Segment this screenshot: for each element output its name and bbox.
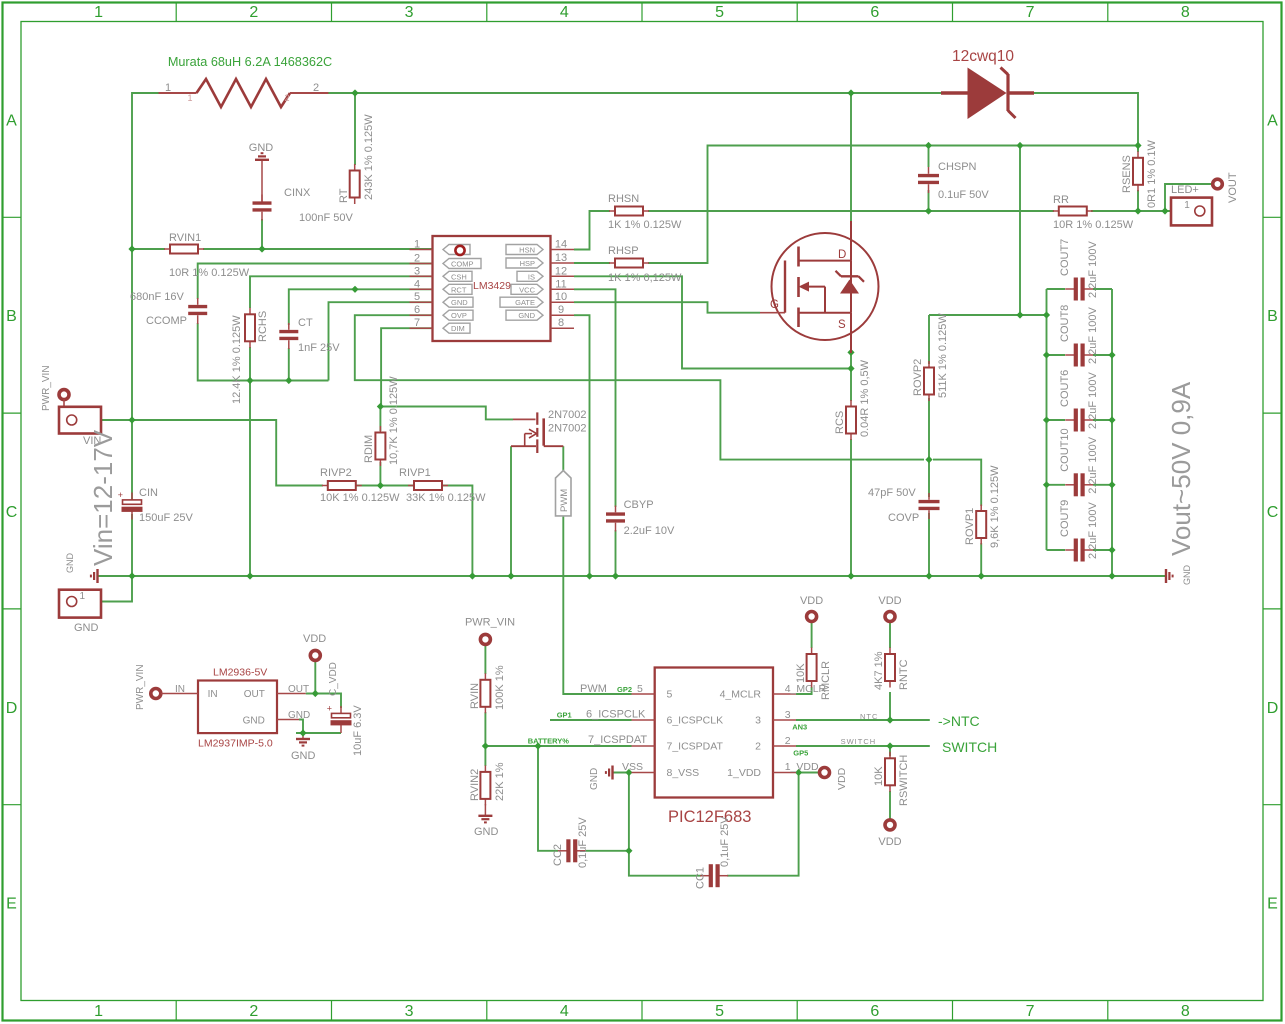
svg-text:2: 2 [313, 82, 319, 94]
capacitor CC1 [700, 864, 728, 887]
wire RR right to LED+ [1091, 210, 1193, 212]
node drain top [847, 89, 854, 96]
svg-text:6_ICSPCLK: 6_ICSPCLK [586, 709, 646, 721]
svg-text:10,7K 1% 0.125W: 10,7K 1% 0.125W [388, 376, 400, 465]
svg-text:COVP: COVP [888, 512, 919, 524]
svg-text:0.04R 1% 0,5W: 0.04R 1% 0,5W [859, 359, 871, 437]
svg-text:->NTC: ->NTC [938, 713, 980, 729]
capacitor CBYP labels [624, 499, 675, 537]
svg-text:CC2: CC2 [552, 844, 564, 866]
resistor ROVP1 labels [964, 465, 1001, 548]
connector VIN labels [41, 365, 101, 447]
svg-text:COUT6: COUT6 [1059, 370, 1071, 407]
svg-text:CHSPN: CHSPN [938, 161, 977, 173]
resistor RHSP labels [608, 245, 682, 284]
svg-text:1: 1 [94, 1003, 103, 1020]
svg-text:OVP: OVP [451, 311, 467, 320]
svg-text:5: 5 [637, 683, 643, 695]
svg-text:SWITCH: SWITCH [942, 739, 997, 755]
svg-text:1nF 25V: 1nF 25V [298, 342, 340, 354]
svg-text:+: + [327, 704, 332, 714]
node VOUT drop [1016, 142, 1023, 149]
svg-text:GND: GND [249, 142, 274, 154]
wire COUT9 row right [1093, 549, 1112, 551]
svg-text:7_ICSPDAT: 7_ICSPDAT [588, 734, 647, 746]
transistor Q1 power MOSFET [760, 221, 879, 353]
svg-text:2.2uF 100V: 2.2uF 100V [1087, 306, 1099, 364]
connector LED+ labels [1171, 184, 1199, 211]
node CBYP gnd [612, 572, 619, 579]
svg-text:6_ICSPCLK: 6_ICSPCLK [667, 715, 724, 727]
capacitor CHSPN labels [938, 161, 989, 201]
svg-text:RIVP1: RIVP1 [399, 467, 431, 479]
wire CT bottom [288, 348, 290, 381]
resistor RHSN labels [608, 193, 682, 231]
svg-text:6: 6 [870, 1003, 879, 1020]
svg-text:RCS: RCS [834, 411, 846, 434]
svg-text:NTC: NTC [860, 712, 878, 721]
resistor RHSP [609, 259, 649, 268]
svg-text:GND: GND [74, 622, 99, 634]
resistor RVIN2 [480, 765, 490, 805]
resistor RIVP1 labels [399, 467, 486, 504]
node VIN pin [77, 416, 84, 423]
wire pin10 GATE [574, 302, 760, 313]
wire RVIN1 to CINX to pin1 [203, 248, 433, 250]
wire RCHS gnd drop [249, 381, 251, 577]
node pin1 VDD [795, 769, 802, 776]
svg-text:4_MCLR: 4_MCLR [720, 689, 762, 701]
svg-text:RVIN1: RVIN1 [169, 232, 201, 244]
svg-text:COUT8: COUT8 [1059, 305, 1071, 342]
svg-text:ROVP1: ROVP1 [964, 508, 976, 545]
node CT gnd [285, 377, 292, 384]
wire CHSPN top stub [928, 146, 930, 168]
inductor L1 labels [165, 55, 332, 103]
capacitor CC2 labels [552, 817, 589, 868]
svg-text:33K 1% 0.125W: 33K 1% 0.125W [406, 492, 486, 504]
wire 2N7002 source gnd [510, 446, 512, 576]
svg-text:PIC12F683: PIC12F683 [668, 808, 751, 826]
transistor Q2 labels [548, 409, 587, 435]
svg-text:4: 4 [560, 1003, 569, 1020]
wire COUT left rail [1046, 289, 1048, 550]
svg-text:10: 10 [555, 291, 567, 303]
node COUT8 L [1043, 351, 1050, 358]
regulator U3 names [198, 667, 273, 750]
wire pin3 CSH [250, 276, 433, 308]
svg-text:VDD: VDD [800, 595, 823, 607]
node ROVP1 gnd [978, 572, 985, 579]
svg-text:6: 6 [414, 304, 420, 316]
svg-text:8_VSS: 8_VSS [667, 767, 700, 779]
resistor RIVP2 labels [320, 467, 400, 504]
svg-text:1K 1% 0.125W: 1K 1% 0.125W [608, 219, 682, 231]
svg-text:2: 2 [755, 741, 761, 753]
wire RDIM bottom [379, 462, 381, 486]
node RIVP1 gnd [469, 572, 476, 579]
svg-text:OUT: OUT [244, 689, 265, 700]
svg-text:RCT: RCT [451, 285, 467, 294]
svg-text:PWR_VIN: PWR_VIN [465, 617, 515, 629]
svg-text:IN: IN [208, 689, 218, 700]
resistor RSWITCH [885, 752, 895, 792]
op-amp U1 LM3429 pin flags [443, 245, 543, 334]
svg-text:RT: RT [338, 188, 350, 203]
node COUT gnd [1108, 572, 1115, 579]
svg-text:0R1 1% 0.1W: 0R1 1% 0.1W [1146, 140, 1158, 208]
node LED+ tap [1161, 207, 1168, 214]
wire COUT9 row [1047, 549, 1066, 551]
resistor RVIN1 labels [169, 232, 250, 279]
capacitor COVP labels [868, 487, 919, 524]
svg-text:3: 3 [755, 715, 761, 727]
wire CIN branch [131, 420, 133, 500]
svg-text:RVIN: RVIN [469, 683, 481, 709]
wire COUT6 row [1047, 419, 1066, 421]
svg-text:OUT: OUT [288, 684, 309, 695]
ground GND right rail [1166, 569, 1173, 583]
svg-text:D: D [838, 249, 846, 261]
svg-text:22K 1%: 22K 1% [494, 762, 506, 801]
svg-text:3: 3 [405, 1003, 414, 1020]
capacitor CINX labels [284, 187, 353, 224]
svg-text:S: S [838, 319, 846, 331]
svg-text:CC1: CC1 [695, 867, 707, 889]
svg-text:47pF 50V: 47pF 50V [868, 487, 916, 499]
node RDIM top [377, 403, 384, 410]
resistor ROVP2 [924, 361, 934, 401]
svg-text:RIVP2: RIVP2 [320, 467, 352, 479]
inductor L1 Murata 68uH [159, 79, 329, 107]
ground GND at CINX [255, 153, 269, 160]
capacitor CT labels [298, 317, 340, 354]
node COUT8 R [1108, 351, 1115, 358]
wire RVIN2 gnd [484, 804, 486, 816]
capacitor CINX [253, 195, 272, 221]
svg-text:GATE: GATE [515, 298, 535, 307]
node RVIN tap [482, 742, 489, 749]
capacitor COUT9 labels [1059, 500, 1099, 559]
wire pin5 GND [329, 302, 434, 380]
resistor RDIM labels [363, 376, 400, 465]
node CINX [258, 245, 265, 252]
svg-text:2: 2 [284, 93, 289, 103]
node CIN gnd [128, 572, 135, 579]
svg-text:PWM: PWM [559, 489, 570, 512]
wire CC1 right [727, 773, 799, 876]
svg-text:1: 1 [414, 239, 420, 251]
wire GND rail [98, 575, 1166, 577]
svg-text:100nF 50V: 100nF 50V [299, 212, 353, 224]
svg-text:IN: IN [175, 684, 185, 695]
wire pin11 VCC to CBYP [574, 289, 616, 507]
connector GND X3 [59, 590, 101, 618]
capacitor COUT7 [1065, 278, 1093, 301]
svg-text:A: A [1267, 112, 1278, 129]
svg-text:511K 1% 0.125W: 511K 1% 0.125W [937, 313, 949, 398]
diode D1 12cwq10 [941, 68, 1034, 120]
node CC2 CC1 [625, 847, 632, 854]
node source [847, 349, 854, 356]
resistor RT labels [338, 114, 375, 203]
wire RNTC top [889, 622, 891, 649]
node pin9 gnd [586, 572, 593, 579]
wire RVIN1 net pin1 [132, 248, 165, 250]
resistor RMCLR [807, 648, 817, 688]
svg-text:2.2uF 100V: 2.2uF 100V [1087, 240, 1099, 298]
wire pin13 stub link [574, 262, 610, 264]
svg-text:2.2uF 10V: 2.2uF 10V [624, 525, 675, 537]
wire CC net to CC1 [629, 851, 701, 876]
svg-text:7: 7 [414, 317, 420, 329]
capacitor CC1 labels [695, 816, 732, 889]
wire CIN bottom [131, 514, 133, 576]
resistor RMCLR labels [795, 661, 832, 700]
svg-text:1_VDD: 1_VDD [727, 767, 761, 779]
resistor RIVP1 [408, 481, 448, 490]
svg-text:AN3: AN3 [792, 723, 807, 732]
resistor RSENS [1133, 151, 1143, 191]
svg-text:7: 7 [1026, 1003, 1035, 1020]
resistor RR [1053, 207, 1093, 216]
resistor RSENS labels [1121, 140, 1158, 208]
wire VSS drop [628, 773, 630, 851]
svg-text:10uF 6.3V: 10uF 6.3V [352, 705, 364, 756]
resistor RR labels [1053, 194, 1134, 231]
wire RVIN top [484, 645, 486, 674]
wire RSENS bottom [1137, 190, 1139, 211]
node COUT rail top [1043, 311, 1050, 318]
resistor ROVP2 labels [912, 313, 949, 398]
wire U3 GND stub [277, 719, 299, 721]
wire CHSPN bottom [928, 190, 930, 211]
node OVP divider [925, 456, 932, 463]
node CHSPN bottom [925, 207, 932, 214]
svg-text:GP1: GP1 [557, 711, 572, 720]
svg-text:C: C [1267, 504, 1279, 521]
wire L1 to diode [325, 92, 941, 94]
wire U3 gnd stub2 [302, 733, 304, 739]
svg-text:B: B [1267, 308, 1278, 325]
wire BATTERY% net [485, 745, 631, 747]
svg-text:1: 1 [94, 4, 103, 21]
svg-text:RHSP: RHSP [608, 245, 639, 257]
svg-text:4K7 1%: 4K7 1% [873, 651, 885, 690]
svg-text:8: 8 [1181, 1003, 1190, 1020]
wire CCOMP bottom [198, 323, 329, 381]
svg-text:ROVP2: ROVP2 [912, 359, 924, 396]
wire VIN row [81, 420, 323, 486]
node VSS [625, 769, 632, 776]
wire CINX bottom [261, 219, 263, 249]
svg-text:IS: IS [528, 272, 535, 281]
capacitor C_VDD labels [328, 662, 364, 756]
svg-text:1: 1 [187, 93, 192, 103]
svg-text:E: E [6, 896, 17, 913]
ground GND rail left [91, 569, 98, 583]
node COUT feed [1016, 311, 1023, 318]
svg-text:CSH: CSH [451, 272, 467, 281]
wire COUT feed [929, 314, 1047, 316]
node CC2 tap [534, 742, 541, 749]
svg-text:CBYP: CBYP [624, 499, 654, 511]
svg-text:12cwq10: 12cwq10 [952, 48, 1014, 65]
wire RVIN bottom [484, 712, 486, 746]
wire CINX top stub [261, 161, 263, 202]
svg-text:0,1uF 25V: 0,1uF 25V [577, 817, 589, 868]
pin VDD below RSWITCH [885, 820, 895, 830]
node IS tap [847, 365, 854, 372]
svg-text:8: 8 [558, 317, 564, 329]
wire RCS bottom [850, 439, 852, 576]
capacitor CIN [118, 490, 143, 520]
capacitor CC2 [558, 839, 586, 862]
capacitor COUT7 labels [1059, 239, 1099, 298]
pin PWR_VIN at U3 [151, 689, 161, 699]
wire LM2936 out [306, 694, 341, 709]
svg-text:0.1uF 50V: 0.1uF 50V [938, 189, 989, 201]
svg-text:4: 4 [560, 4, 569, 21]
pin PWR_VIN at RVIN [480, 634, 490, 644]
svg-text:5: 5 [667, 689, 673, 701]
connector GND labels [74, 591, 99, 634]
node COUT6 R [1108, 416, 1115, 423]
wire pin4 MCLR [796, 687, 812, 694]
wire COUT7 row [1047, 288, 1066, 290]
capacitor COVP [919, 493, 940, 519]
svg-text:RHSN: RHSN [608, 193, 639, 205]
capacitor COUT6 [1065, 409, 1093, 432]
svg-text:5: 5 [715, 4, 724, 21]
svg-text:VDD: VDD [878, 595, 901, 607]
wire RDIM top link [380, 407, 513, 420]
wire RCHS bottom [249, 347, 251, 381]
svg-text:2N7002: 2N7002 [548, 409, 587, 421]
svg-text:RDIM: RDIM [363, 435, 375, 463]
wire COUT10 row [1047, 484, 1066, 486]
capacitor COUT10 labels [1059, 428, 1099, 493]
svg-text:CCOMP: CCOMP [146, 315, 187, 327]
svg-text:LED+: LED+ [1171, 184, 1199, 196]
wire HSP sense [648, 146, 1138, 264]
pin VDD at RMCLR [807, 612, 817, 622]
svg-text:10K 1% 0.125W: 10K 1% 0.125W [320, 492, 400, 504]
wire RVIN2 top [484, 746, 486, 766]
svg-text:2: 2 [249, 4, 258, 21]
wire COUT10 row right [1093, 484, 1112, 486]
node VIN tee [128, 416, 135, 423]
wire RHSN left [574, 211, 610, 250]
wire RDIM-RIVP1 [380, 485, 413, 487]
wire pin2 SWITCH [796, 745, 930, 747]
capacitor CHSPN [918, 167, 939, 193]
svg-text:RR: RR [1053, 194, 1069, 206]
svg-text:HSN: HSN [519, 246, 535, 255]
pin VOUT [1213, 179, 1223, 189]
wire RNTC bottom [889, 692, 891, 720]
svg-text:GND: GND [291, 750, 316, 762]
svg-text:COUT10: COUT10 [1059, 428, 1071, 471]
svg-text:5: 5 [414, 291, 420, 303]
svg-text:GND: GND [589, 768, 600, 790]
wire RSWITCH bottom [889, 791, 891, 820]
capacitor CBYP [606, 506, 625, 532]
svg-text:680nF 16V: 680nF 16V [130, 291, 184, 303]
node RT bottom [351, 286, 358, 293]
svg-text:VOUT: VOUT [1227, 172, 1239, 203]
capacitor CIN labels [139, 487, 193, 524]
svg-text:COUT9: COUT9 [1059, 500, 1071, 537]
capacitor COUT6 labels [1059, 370, 1099, 429]
svg-text:12: 12 [555, 265, 567, 277]
capacitor COUT8 [1065, 344, 1093, 367]
svg-text:GND: GND [288, 710, 310, 721]
pin VDD at U3 [310, 650, 320, 660]
svg-text:VDD: VDD [836, 767, 848, 790]
svg-text:RSWITCH: RSWITCH [898, 755, 910, 806]
svg-text:1_VDD: 1_VDD [785, 761, 819, 773]
svg-text:9,6K 1% 0.125W: 9,6K 1% 0.125W [989, 465, 1001, 548]
resistor ROVP1 [976, 505, 986, 545]
capacitor COUT8 labels [1059, 305, 1099, 364]
resistor RCS [846, 400, 856, 440]
wire CC2 right [585, 850, 629, 852]
svg-text:2.2uF 100V: 2.2uF 100V [1087, 501, 1099, 559]
resistor RVIN1 [164, 245, 204, 254]
pin PWR_VIN top [59, 390, 69, 400]
resistor RNTC [885, 648, 895, 688]
resistor RCHS labels [231, 311, 269, 404]
svg-text:D: D [6, 700, 18, 717]
svg-text:CIN: CIN [139, 487, 158, 499]
wire ROVP1 bottom [980, 543, 982, 576]
svg-text:LM3429: LM3429 [473, 280, 511, 292]
svg-text:7_ICSPDAT: 7_ICSPDAT [667, 741, 724, 753]
wire pin14 link [573, 249, 575, 251]
svg-text:1K 1% 0,125W: 1K 1% 0,125W [608, 272, 682, 284]
wire COVP top [928, 460, 930, 497]
resistor RVIN2 labels [469, 762, 506, 801]
svg-text:8: 8 [1181, 4, 1190, 21]
transistor Q2 2N7002 [511, 412, 563, 453]
svg-text:COMP: COMP [451, 260, 474, 269]
node RCHS gnd [246, 377, 253, 384]
wire LED+ to VOUT [1165, 184, 1211, 211]
capacitor CCOMP labels [130, 291, 187, 327]
svg-text:+: + [118, 490, 123, 500]
svg-text:LM2937IMP-5.0: LM2937IMP-5.0 [198, 738, 273, 750]
op-amp U1 LM3429 pins [410, 239, 575, 330]
wire VSS link [613, 772, 632, 774]
svg-text:PWR_VIN: PWR_VIN [41, 365, 52, 411]
mcu U2 PIC12F683 body [655, 668, 773, 798]
wire pin12 IS to source [574, 276, 851, 368]
wire pin9 GND drop [574, 315, 590, 576]
wire GND connector link [78, 576, 132, 602]
wire MOSFET source [850, 353, 852, 369]
resistor RIVP2 [322, 481, 362, 490]
svg-text:1: 1 [80, 591, 86, 602]
wire ROVP2 bottom [928, 398, 930, 460]
wire PWR_VIN pin link [63, 399, 65, 420]
wire pin6 OVP [355, 315, 924, 459]
svg-text:GND: GND [474, 826, 499, 838]
svg-text:100K 1%: 100K 1% [494, 665, 506, 710]
wire 2N7002 gate PWM [563, 446, 631, 694]
svg-text:DIM: DIM [451, 324, 465, 333]
resistor RNTC labels [873, 651, 910, 690]
